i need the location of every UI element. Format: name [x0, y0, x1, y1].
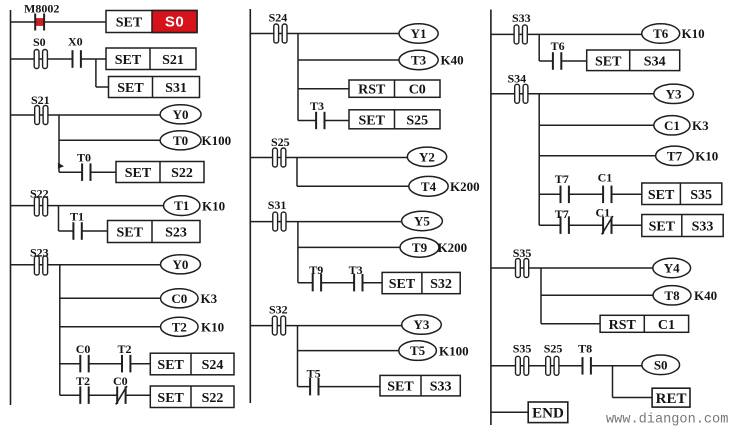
svg-text:M8002: M8002: [24, 2, 59, 16]
svg-text:SET: SET: [389, 277, 416, 292]
svg-text:S21: S21: [31, 93, 50, 107]
svg-text:S33: S33: [692, 220, 714, 235]
svg-text:S22: S22: [171, 166, 193, 181]
svg-text:T0: T0: [77, 151, 91, 165]
instruction box SET S31: [109, 77, 200, 98]
svg-text:K10: K10: [201, 320, 224, 335]
wire branch vertical S31: [297, 222, 299, 283]
svg-text:K200: K200: [450, 179, 480, 194]
wire rung S35 to Y4 coil: [491, 267, 653, 269]
svg-text:END: END: [532, 406, 564, 422]
svg-text:Y2: Y2: [419, 149, 435, 164]
contact T7: [555, 172, 569, 203]
svg-text:SET: SET: [649, 220, 676, 235]
wire branch vertical S25: [296, 158, 298, 187]
instruction box SET S22 second: [150, 386, 234, 408]
svg-text:K100: K100: [202, 133, 232, 148]
wire to T3 coil: [298, 59, 399, 61]
svg-text:RST: RST: [358, 83, 386, 98]
svg-text:T1: T1: [70, 209, 84, 223]
wire rung5 rail to Y0 coil: [11, 264, 161, 266]
svg-text:S31: S31: [165, 81, 187, 96]
svg-text:S32: S32: [430, 277, 452, 292]
svg-text:T1: T1: [174, 198, 189, 213]
coil T7 with K10: [656, 146, 719, 165]
wire T0 contact row: [59, 171, 116, 173]
instruction box SET S32: [382, 272, 460, 293]
wire rung S31 to Y5 coil: [250, 221, 401, 223]
wire to T4 coil: [297, 185, 409, 187]
svg-text:T3: T3: [310, 99, 324, 113]
coil Y3: [402, 315, 442, 334]
svg-text:C1: C1: [658, 318, 675, 333]
wire branch vertical rung5: [59, 265, 61, 395]
svg-text:S35: S35: [513, 246, 532, 260]
svg-text:S33: S33: [512, 11, 531, 25]
contact C0: [76, 342, 91, 373]
coil T6 with K10: [642, 24, 705, 43]
svg-text:S23: S23: [165, 226, 187, 241]
svg-text:C0: C0: [409, 83, 426, 98]
wire rung transition to S0 coil: [491, 365, 642, 367]
coil Y4: [653, 258, 691, 277]
wire branch vertical S24: [297, 34, 299, 121]
svg-text:T8: T8: [578, 341, 592, 355]
contact T5: [307, 367, 321, 396]
instruction box SET S21: [106, 48, 196, 70]
contact T2 second: [76, 374, 90, 404]
wire to T2 coil: [60, 326, 161, 328]
wire to C0 coil: [60, 297, 161, 299]
coil Y1: [399, 24, 438, 43]
svg-text:K40: K40: [694, 288, 717, 303]
coil T9 with K200: [400, 238, 467, 258]
svg-text:S35: S35: [513, 341, 532, 355]
svg-text:S25: S25: [406, 113, 428, 128]
instruction box SET S35: [642, 183, 722, 205]
wire to T9 coil: [298, 246, 400, 248]
svg-text:RST: RST: [609, 318, 637, 333]
wire to C1 coil: [539, 124, 654, 126]
svg-text:S21: S21: [162, 53, 184, 68]
svg-text:K100: K100: [439, 343, 469, 358]
wire to T5 coil: [298, 350, 399, 352]
coil Y0 second: [161, 255, 201, 274]
wire to T0 coil: [59, 139, 160, 141]
coil T3 with K40: [399, 50, 464, 69]
STL contact S35 second: [513, 341, 532, 375]
svg-text:SET: SET: [157, 391, 184, 406]
instruction box RST C1: [600, 315, 689, 333]
coil Y0: [160, 105, 201, 124]
svg-text:C1: C1: [598, 170, 613, 184]
svg-text:K40: K40: [441, 53, 464, 68]
instruction box SET S33 second: [642, 215, 723, 237]
STL contact S35: [513, 246, 532, 278]
svg-text:S0: S0: [33, 35, 46, 49]
svg-text:SET: SET: [117, 226, 144, 241]
coil T0 with K100: [160, 131, 231, 150]
svg-text:S24: S24: [202, 358, 224, 373]
instruction box SET S34: [587, 50, 680, 71]
contact T2: [118, 342, 132, 373]
svg-text:T3: T3: [349, 263, 363, 277]
instruction box SET S23: [108, 221, 201, 243]
svg-text:S35: S35: [690, 188, 712, 203]
contact T0: [77, 151, 91, 181]
svg-text:T7: T7: [555, 207, 569, 221]
instruction box SET S22: [116, 162, 204, 183]
svg-text:T3: T3: [411, 53, 427, 68]
branch arrow mark: [58, 163, 64, 169]
contact C0 normally closed: [113, 374, 128, 405]
svg-text:SET: SET: [116, 16, 143, 31]
svg-text:T2: T2: [76, 374, 90, 388]
svg-text:Y5: Y5: [414, 214, 430, 229]
STL contact S31: [268, 198, 287, 231]
contact T3: [310, 99, 325, 129]
svg-text:T8: T8: [664, 288, 680, 303]
svg-text:T7: T7: [555, 172, 569, 186]
svg-text:K10: K10: [202, 198, 225, 213]
wire branch vertical rung3: [58, 115, 60, 172]
STL contact S25 second: [544, 341, 563, 375]
svg-text:K10: K10: [682, 26, 705, 41]
svg-text:T7: T7: [667, 148, 683, 163]
wire rung2 rail to SET S21 box: [11, 58, 107, 60]
coil T4 with K200: [409, 176, 480, 196]
wire T5 contact row: [298, 386, 381, 388]
instruction box RET: [652, 388, 690, 407]
contact C1: [598, 170, 613, 203]
coil T2 with K10: [161, 317, 225, 336]
wire rung4 rail to T1 coil: [11, 205, 165, 207]
svg-text:T4: T4: [421, 179, 437, 194]
instruction box SET S24: [150, 353, 234, 375]
svg-text:T2: T2: [118, 342, 132, 356]
svg-text:Y3: Y3: [414, 317, 430, 332]
STL contact S32: [269, 303, 288, 336]
contact C1 normally closed: [596, 206, 613, 235]
svg-text:Y0: Y0: [173, 257, 189, 272]
wire C0 T2 contact row: [60, 363, 151, 365]
svg-text:X0: X0: [68, 35, 83, 49]
contact T3 second: [349, 263, 363, 291]
svg-text:SET: SET: [125, 166, 152, 181]
instruction box SET S33: [380, 375, 460, 396]
coil Y3 second: [654, 84, 694, 103]
svg-text:C0: C0: [171, 291, 187, 306]
left power rail column 1: [10, 10, 12, 405]
svg-text:K200: K200: [438, 240, 468, 255]
wire to SET S31 box: [96, 86, 109, 88]
svg-text:C0: C0: [76, 342, 91, 356]
contact T6: [551, 39, 565, 70]
wire rung3 rail to Y0 coil: [11, 114, 161, 116]
STL contact S25: [271, 135, 290, 167]
svg-text:T0: T0: [173, 133, 188, 148]
contact X0: [68, 35, 83, 68]
contact T9: [309, 263, 323, 291]
coil T5 with K100: [399, 341, 469, 361]
contact M8002 (initial pulse, highlighted): [24, 2, 59, 31]
svg-text:S34: S34: [508, 72, 527, 86]
svg-text:T6: T6: [551, 39, 565, 53]
instruction box SET S0 (active step highlighted red): [106, 11, 197, 33]
power rail column 2: [249, 9, 251, 403]
coil C1 with K3: [654, 116, 709, 135]
svg-text:Y1: Y1: [411, 26, 427, 41]
wire to T7 coil: [539, 155, 655, 157]
wire rung S24 to Y1 coil: [250, 33, 399, 35]
svg-text:T5: T5: [410, 343, 426, 358]
svg-text:T6: T6: [653, 26, 669, 41]
svg-text:Y0: Y0: [173, 107, 189, 122]
wire T6 contact row: [539, 60, 587, 62]
wire rung S32 to Y3 coil: [250, 325, 402, 327]
svg-text:SET: SET: [595, 54, 622, 69]
wire T3 contact row: [298, 120, 349, 122]
wire to RST C0 box: [298, 88, 349, 90]
wire rung S33 to T6 coil: [491, 33, 642, 35]
svg-text:S0: S0: [165, 14, 184, 31]
wire T7 C1 contact row: [539, 193, 642, 195]
wire T2 C0 contact row: [60, 394, 151, 396]
contact T7 second: [555, 207, 569, 234]
wire drop to RET: [613, 366, 653, 398]
instruction box END: [528, 402, 568, 423]
svg-text:S33: S33: [430, 380, 452, 395]
STL contact S23: [30, 245, 49, 275]
svg-text:SET: SET: [115, 53, 142, 68]
svg-text:Y4: Y4: [664, 261, 680, 276]
wire branch vertical S33: [538, 34, 540, 61]
wire T9 T3 contact row: [298, 282, 382, 284]
svg-text:S22: S22: [202, 391, 224, 406]
coil C0 with K3: [161, 289, 218, 308]
wire to RST C1 box: [541, 323, 600, 325]
svg-text:www.diangon.com: www.diangon.com: [606, 413, 728, 428]
svg-text:S31: S31: [268, 198, 287, 212]
STL contact S34: [508, 72, 528, 104]
STL contact S24: [269, 11, 288, 44]
coil T1 with K10: [164, 196, 226, 216]
svg-text:SET: SET: [117, 81, 144, 96]
svg-text:SET: SET: [157, 358, 184, 373]
wire to T8 coil: [541, 294, 653, 296]
svg-text:C1: C1: [664, 118, 680, 133]
coil T8 with K40: [653, 286, 717, 305]
coil Y2: [407, 147, 446, 166]
wire branch vertical S32: [297, 326, 299, 387]
coil S0: [642, 355, 680, 375]
STL contact S0: [33, 35, 47, 69]
svg-text:S24: S24: [269, 11, 288, 25]
wire branch vertical S34: [538, 94, 540, 225]
svg-text:T9: T9: [412, 240, 428, 255]
svg-text:SET: SET: [387, 380, 414, 395]
coil Y5: [402, 211, 443, 230]
STL contact S21: [31, 93, 50, 125]
svg-text:T2: T2: [172, 319, 187, 334]
contact T1: [70, 209, 84, 240]
contact T8: [578, 341, 592, 374]
svg-text:K10: K10: [695, 149, 718, 164]
svg-text:K3: K3: [692, 118, 709, 133]
wire branch vertical after X0: [95, 59, 97, 87]
wire rung S25 to Y2 coil: [250, 157, 407, 159]
wire T1 contact row: [59, 230, 108, 232]
svg-text:C0: C0: [113, 374, 128, 388]
svg-text:SET: SET: [359, 113, 386, 128]
wire branch vertical S35: [540, 268, 542, 324]
wire END rung: [491, 411, 528, 413]
instruction box SET S25: [349, 110, 440, 129]
wire rung1 rail to SET S0 box: [11, 21, 107, 23]
svg-text:K3: K3: [201, 291, 218, 306]
svg-text:S25: S25: [544, 341, 563, 355]
wire rung S34 to Y3 coil: [491, 93, 654, 95]
svg-text:S25: S25: [271, 135, 290, 149]
svg-text:SET: SET: [648, 188, 675, 203]
svg-text:RET: RET: [656, 391, 687, 407]
wire branch vertical rung4: [58, 206, 60, 231]
wire T7 C1 NC contact row: [539, 224, 642, 226]
watermark www.diangon.com: [606, 413, 728, 428]
instruction box RST C0: [349, 80, 440, 98]
svg-text:S32: S32: [269, 303, 288, 317]
power rail column 3: [490, 10, 492, 426]
svg-text:S0: S0: [654, 357, 668, 372]
svg-text:S34: S34: [644, 54, 666, 69]
svg-text:Y3: Y3: [666, 86, 682, 101]
STL contact S22: [30, 186, 49, 216]
STL contact S33: [512, 11, 531, 44]
